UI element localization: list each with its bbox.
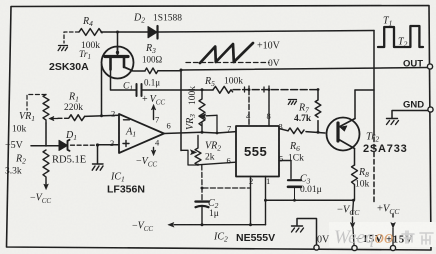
label 0V terminal: [317, 235, 330, 246]
capacitor C3: [288, 180, 301, 200]
label -15V: [356, 234, 383, 245]
label +10V: [257, 41, 281, 52]
pin 1 555: [266, 176, 270, 186]
watermark CJK glyph 2: [420, 233, 433, 244]
wire tick overshoots at rail junctions: [245, 86, 270, 92]
ground chassis below op-amp pin 3: [92, 164, 103, 170]
waveform square pulses T1 T2: [378, 26, 423, 47]
node GND terminal: [428, 107, 433, 112]
transistor Q1 Tr1 2SK30A: [102, 47, 134, 79]
label -Vcc bottom rail: [132, 221, 153, 234]
wire Tr1 drain to top rail: [117, 32, 119, 47]
label R7: [298, 103, 309, 115]
label Tr1: [79, 50, 91, 61]
wire 555 pin 2 drop: [250, 177, 252, 225]
label T1: [383, 16, 392, 28]
wire R3 from Tr1 to sawtooth node: [134, 70, 182, 72]
wire sawtooth node vertical: [180, 70, 182, 151]
wire 555 pin 1 drop: [265, 177, 267, 225]
wire right vertical bus: [373, 31, 375, 205]
value R7 4.7k: [294, 114, 312, 124]
wire dashed from R4 left to ground: [64, 32, 79, 43]
pin 4 555: [246, 111, 251, 121]
label VR1: [19, 111, 35, 123]
node +15V terminal: [390, 245, 395, 250]
wire VR1 bottom to -5V node: [45, 123, 47, 146]
wire ground rail y200 from pin1 to R8: [266, 199, 354, 201]
label C2: [208, 198, 219, 210]
label R1: [68, 92, 79, 104]
node junction R8 bottom: [352, 199, 355, 202]
op-amp input polarity marks: [123, 120, 130, 147]
value IC2 NE555V: [236, 232, 275, 244]
pin 5 555: [279, 154, 283, 164]
wire op-amp pin 7 stub with +Vcc arrow: [151, 105, 155, 120]
value R2 3.3k: [5, 167, 22, 177]
resistor R2: [43, 150, 49, 183]
value VR1 10k: [12, 125, 27, 135]
pin 4 op-amp: [155, 138, 160, 148]
label R6: [289, 141, 300, 153]
node junctions on +V rail: [248, 88, 320, 91]
resistor R1: [69, 115, 85, 121]
wire VR1 wiper dash to R1: [58, 117, 69, 119]
wire pin3 node down to ground: [97, 145, 99, 164]
potentiometer VR1 wiper arrow: [49, 116, 58, 120]
pin 7 op-amp: [155, 115, 159, 125]
wire Tr2 collector down to R8: [354, 149, 356, 166]
resistor R8: [352, 165, 358, 200]
potentiometer VR2 wiper loop: [181, 150, 198, 165]
value Tr1 2SK30A: [49, 61, 89, 73]
value R8 10k: [355, 180, 370, 190]
wire 555 pin 8 drop: [268, 90, 270, 126]
node junction R7 base wire: [317, 131, 320, 134]
label D2: [133, 13, 145, 25]
value VR3 100k rotated: [188, 86, 198, 105]
value C3 0.01u: [300, 185, 322, 195]
label IC1: [110, 172, 125, 184]
wire op-amp pin 4 stub with -Vcc arrow: [151, 148, 155, 156]
pin 3 op-amp: [110, 138, 114, 148]
value R6 10k: [288, 154, 304, 164]
wire VR2 bottom node down to C2: [201, 165, 203, 201]
label +Vcc right: [377, 204, 400, 217]
pin 6 555: [227, 156, 231, 166]
label GND: [403, 100, 424, 111]
node junction pin1/rail: [264, 199, 296, 202]
label R8: [358, 167, 369, 179]
label C1: [123, 82, 133, 93]
ground chassis GND: [387, 119, 399, 125]
label R5: [204, 76, 215, 88]
label -Vcc below R2: [30, 193, 51, 206]
potentiometer VR1 dashed bracket: [27, 95, 46, 111]
wire D1 dashed to op-amp pin 3 node: [71, 144, 98, 146]
label R4: [82, 16, 93, 28]
capacitor C1: [137, 84, 142, 96]
watermark CJK glyph 1: [402, 231, 414, 243]
node junction drain/top rail: [116, 31, 119, 34]
value IC1 LF356N: [107, 184, 145, 196]
potentiometer VR1: [43, 95, 49, 124]
transistor Tr2 emitter arrow: [340, 126, 347, 131]
pin 6 op-amp: [167, 121, 171, 131]
wire top rail from R4 through D2 to right bus: [101, 31, 374, 33]
power -Vcc stub to -15V terminal: [350, 200, 355, 245]
node junction C2/-Vcc rail: [201, 223, 253, 226]
wire +V rail from R5 to R7: [233, 89, 318, 91]
value C2 1u: [209, 209, 219, 219]
value D2 1S1588: [153, 14, 182, 24]
pin 3 555: [279, 122, 283, 132]
wire Tr1 source down and right through C1: [111, 70, 214, 91]
potentiometer VR2: [195, 136, 201, 166]
label D1: [65, 130, 77, 142]
label -Vcc op-amp pin4: [136, 156, 157, 169]
value Tr2 2SA733: [363, 143, 408, 155]
ground chassis mark near R7: [288, 100, 296, 105]
power -Vcc arrow below R2: [44, 183, 49, 190]
watermark background box: [329, 222, 436, 247]
watermark Weeqoo: [334, 227, 393, 248]
wire op-amp output to 555 pin 7: [164, 132, 236, 134]
wire GND stub: [392, 111, 428, 119]
wire R1 to op-amp pin 2: [85, 115, 119, 116]
label R2: [15, 154, 26, 166]
label +Vcc op-amp pin7: [142, 94, 165, 107]
resistor R6: [288, 128, 304, 134]
label VR3 rotated: [185, 114, 197, 130]
node junction R3/OUT rail: [180, 69, 183, 72]
wire VR2 top to 555 pin6 wire: [198, 162, 236, 165]
label -Vcc right: [337, 205, 360, 218]
waveform sawtooth: [186, 43, 269, 63]
value R1 220k: [64, 103, 83, 113]
ground chassis 0V: [292, 226, 304, 232]
wire Tr2 emitter up: [354, 90, 356, 119]
label IC2: [213, 232, 228, 244]
pin 7 555: [227, 124, 231, 134]
wire OUT rail: [181, 68, 428, 71]
label OUT: [403, 59, 423, 70]
label 0V sawtooth: [268, 59, 280, 69]
value R3 100ohm: [142, 55, 163, 65]
label C3: [300, 174, 311, 186]
pin 2 op-amp: [111, 109, 115, 119]
wire 555 pin 5 to C3: [279, 161, 291, 179]
power +Vcc stub to +15V terminal: [391, 214, 396, 245]
label R3: [145, 43, 156, 55]
resistor R5: [213, 86, 233, 93]
node OUT terminal: [427, 64, 432, 69]
op-amp U1 A1: [119, 114, 164, 153]
potentiometer VR3: [199, 90, 205, 133]
wire dashed C2 node to 555 pin 2 drop: [203, 187, 251, 189]
label Tr2: [366, 132, 379, 144]
wire 555 pin 3 output: [279, 129, 325, 134]
resistor R4: [79, 29, 102, 36]
wire Tr1 gate down to op-amp input node: [101, 65, 103, 116]
wire 0V stub with chassis ground: [297, 219, 317, 246]
node junction VR3 top: [201, 88, 204, 91]
value R5 100k: [224, 77, 243, 87]
wire op-amp pin 3: [98, 144, 120, 146]
diode D2: [148, 26, 158, 39]
label VR2: [205, 141, 221, 153]
value VR2 2k: [205, 153, 215, 163]
transistor Q2 Tr2 2SA733: [327, 118, 360, 151]
pin 8 555: [267, 111, 271, 121]
label 555: [244, 144, 267, 159]
wire -Vcc bottom rail with arrow: [168, 222, 266, 227]
node junction VR3 bottom on output wire: [201, 131, 219, 135]
value C1 0.1u: [144, 78, 160, 88]
node Tr1 drain dot: [116, 51, 119, 54]
resistor R7: [315, 90, 321, 133]
label +15V: [386, 235, 413, 246]
node junction at C2 top: [201, 187, 204, 190]
label -5V: [5, 140, 24, 151]
potentiometer VR3 wiper arrow and tie: [200, 114, 218, 133]
wire collector tie to right bus: [355, 89, 374, 91]
value D1 RD5.1E: [52, 155, 86, 166]
node 0V terminal: [314, 245, 319, 250]
wire -5V node horizontal: [31, 145, 59, 147]
value R4 100k: [81, 41, 100, 51]
IC U2 555 timer body: [236, 126, 279, 177]
node junction gate/input: [100, 114, 103, 117]
resistor R3: [145, 68, 158, 74]
node junction D1/pin3: [96, 143, 99, 146]
wire 555 pin 4 drop: [248, 90, 250, 126]
ground chassis top-left: [58, 46, 67, 51]
pin 2 555: [249, 176, 253, 186]
label T2: [398, 37, 408, 49]
label A1: [125, 127, 136, 139]
capacitor C2: [196, 202, 209, 225]
diode D1 zener RD5.1E: [59, 140, 70, 151]
node -15V terminal: [352, 245, 357, 250]
